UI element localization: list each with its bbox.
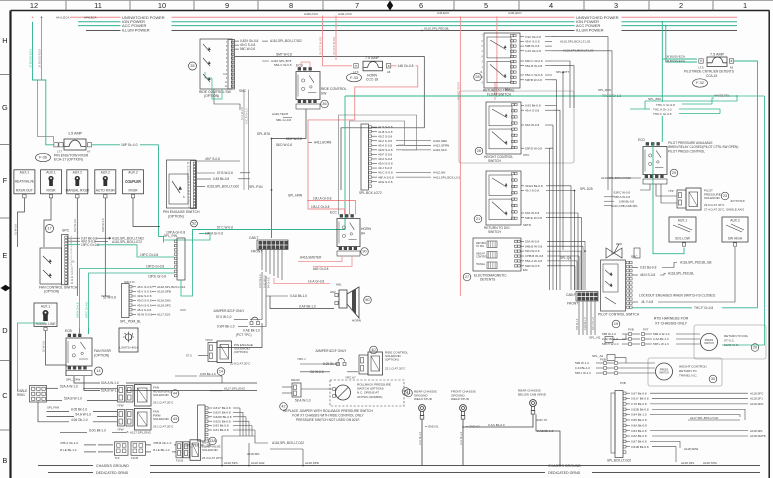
svg-text:19P.C Gr-0.8: 19P.C Gr-0.8	[85, 302, 89, 318]
svg-text:16P Gr-4.0: 16P Gr-4.0	[121, 143, 138, 147]
callout 14 fan rxsr	[95, 367, 103, 375]
svg-text:FLN2: FLN2	[131, 456, 139, 460]
svg-text:SFL: SFL	[505, 87, 511, 91]
svg-text:45.V S-0.8: 45.V S-0.8	[137, 290, 152, 294]
svg-text:49.N S-0.8: 49.N S-0.8	[137, 303, 152, 307]
component PILOT PRESSURE SOLENOID	[668, 188, 745, 211]
wire 52A.B W-1.0	[47, 397, 118, 401]
svg-text:0.88 Bk-0.8: 0.88 Bk-0.8	[619, 199, 634, 203]
svg-text:SOLENOID: SOLENOID	[202, 448, 219, 452]
wires to ground bus taps	[222, 436, 303, 465]
wire JIL Y-0.8	[633, 247, 736, 304]
svg-text:52A.B W-1.0: 52A.B W-1.0	[64, 397, 82, 401]
svg-text:SPL_PIN: SPL_PIN	[164, 234, 178, 238]
svg-text:A118,SPL: A118,SPL	[247, 452, 260, 456]
wire 48.N S-0.8	[633, 272, 695, 278]
svg-text:49.J S-0.8: 49.J S-0.8	[378, 166, 392, 170]
left edge diamond marker	[1, 285, 11, 291]
wire gray drop from ride SW	[214, 89, 240, 110]
svg-text:MANUAL RXSR: MANUAL RXSR	[66, 189, 90, 193]
grid column numbers	[30, 1, 747, 10]
svg-text:47B.A Ok-1.0: 47B.A Ok-1.0	[60, 441, 78, 445]
svg-text:53A W-0.8: 53A W-0.8	[525, 211, 539, 215]
svg-text:B: B	[2, 456, 7, 465]
svg-text:J6 BUSS-ECA: J6 BUSS-ECA	[38, 49, 42, 68]
svg-text:A117,SPL,ENG: A117,SPL,ENG	[130, 430, 152, 434]
svg-text:B: B	[388, 64, 390, 68]
relay ECB FAN RXSR (OPTION)	[65, 329, 111, 382]
svg-text:54D.C W-0.8: 54D.C W-0.8	[525, 59, 543, 63]
svg-text:J7 BUSS-ECA: J7 BUSS-ECA	[29, 49, 33, 68]
svg-text:41.S S-0.8: 41.S S-0.8	[378, 125, 393, 129]
wires from pin engage switch to right	[197, 157, 250, 189]
svg-text:53P.D W-0.8: 53P.D W-0.8	[525, 146, 542, 150]
svg-text:45.W S-0.8: 45.W S-0.8	[137, 313, 153, 317]
svg-text:(OPTION): (OPTION)	[168, 215, 184, 219]
svg-text:54B W-1.0: 54B W-1.0	[575, 361, 589, 365]
svg-text:YRC.A7: YRC.A7	[345, 376, 356, 380]
wires float switch to right verticals	[552, 37, 612, 255]
component FRONT CHASSIS GROUND WELD STUD	[451, 390, 480, 466]
svg-text:45.A S-0.8: 45.A S-0.8	[137, 308, 152, 312]
svg-text:49.A S-0.8: 49.A S-0.8	[525, 108, 540, 112]
svg-text:SPL_BCK: SPL_BCK	[598, 88, 611, 92]
svg-text:57.0 W-1.0: 57.0 W-1.0	[216, 315, 232, 319]
wire 54.A W-1.0	[47, 413, 118, 417]
svg-text:2: 2	[679, 1, 683, 10]
svg-text:DETENTS: DETENTS	[480, 278, 496, 282]
svg-text:55A.C W-0.8: 55A.C W-0.8	[525, 73, 543, 77]
svg-text:A110,SPL,BCK,LT,L02: A110,SPL,BCK,LT,L02	[560, 40, 591, 44]
svg-text:53P.H W-1.0: 53P.H W-1.0	[602, 342, 619, 346]
svg-text:TRAVEL N.C.: TRAVEL N.C.	[679, 374, 698, 378]
svg-text:10A: 10A	[71, 261, 76, 264]
svg-text:52A.B W-1.0: 52A.B W-1.0	[101, 389, 119, 393]
wire 19P.A right arrow	[199, 232, 223, 236]
wire THC.B Gr-1.0 main teal bus	[345, 93, 737, 99]
svg-text:0.81 Bk-0.8: 0.81 Bk-0.8	[213, 428, 229, 432]
wires below horn relay	[298, 256, 352, 272]
wire 19P.E Gr-0.8	[148, 273, 174, 279]
svg-text:19P.B Gr-0.8: 19P.B Gr-0.8	[76, 302, 80, 318]
svg-text:19P.E Gr-0.8: 19P.E Gr-0.8	[148, 275, 166, 279]
component ROLLBACK PRESSURE SWITCH dashed box	[301, 380, 404, 406]
wires SPL_A2 to PXT	[625, 334, 627, 363]
svg-text:TLF: TLF	[115, 456, 120, 460]
svg-text:19U.Z Gr-0.8: 19U.Z Gr-0.8	[311, 205, 330, 209]
connector DR2W	[282, 378, 311, 403]
svg-text:JIL Y-0.8: JIL Y-0.8	[641, 300, 653, 304]
component AUX.1 RXSR	[41, 170, 62, 198]
svg-text:CCA-15: CCA-15	[706, 74, 717, 78]
component RIDE CONTROL SW (OPTION)	[199, 39, 247, 98]
svg-text:0.AF Bk-1.0: 0.AF Bk-1.0	[460, 431, 463, 445]
wire 47B.A Ok-1.0	[60, 441, 113, 445]
svg-text:52: 52	[192, 222, 196, 226]
svg-text:ECB: ECB	[296, 64, 303, 68]
wires THC.C/A/F teal stubs	[630, 94, 730, 117]
svg-text:57.0: 57.0	[186, 354, 192, 358]
svg-text:LOCKOUT ENGAGED WHEN SWITCH IS: LOCKOUT ENGAGED WHEN SWITCH IS CLOSED.	[639, 294, 716, 298]
svg-text:ILLUM POWER: ILLUM POWER	[122, 28, 150, 33]
svg-text:PRESSURE SWITCH NOT USED ON 82: PRESSURE SWITCH NOT USED ON 821F.	[296, 418, 360, 422]
svg-text:PIN ENGAGE SWITCH: PIN ENGAGE SWITCH	[163, 210, 200, 214]
power rail labels left	[121, 14, 172, 34]
svg-text:7.5 AMP: 7.5 AMP	[365, 56, 380, 60]
svg-text:CAB.T: CAB.T	[249, 236, 259, 240]
svg-text:49.2 S-0.8: 49.2 S-0.8	[378, 139, 392, 143]
svg-text:BELOW CAB GRND: BELOW CAB GRND	[518, 392, 547, 396]
svg-text:6: 6	[419, 1, 423, 10]
connector CAB.T FRONT	[249, 236, 288, 254]
svg-text:PILOT CONTROL SWITCH: PILOT CONTROL SWITCH	[598, 313, 640, 317]
svg-text:HN2: HN2	[330, 290, 336, 294]
wire 58.E W-0.8 / A411,HORN	[276, 137, 332, 147]
wire 148 Ck-0.8 fuse output	[355, 64, 418, 120]
svg-text:0.83 Bk-0.8: 0.83 Bk-0.8	[213, 424, 229, 428]
svg-text:WELD STUD: WELD STUD	[451, 397, 470, 401]
svg-text:TRAVEL: TRAVEL	[476, 263, 486, 266]
acc power rail	[78, 25, 737, 27]
label SPL.P1N	[249, 185, 272, 191]
svg-text:26: 26	[477, 149, 481, 153]
svg-text:17: 17	[47, 227, 51, 231]
svg-text:A110,SPL,PED,BL: A110,SPL,PED,BL	[424, 27, 449, 31]
wire long gray run CAB.T to jumper	[250, 272, 266, 327]
connector CAB.F FRONT	[566, 292, 598, 306]
splice SPL_N2	[589, 336, 626, 343]
svg-text:A118,SPC: A118,SPC	[157, 303, 172, 307]
svg-text:ECA-17 (OPTION): ECA-17 (OPTION)	[54, 158, 83, 162]
wires from SPL_PDM_BL with labels	[132, 285, 185, 317]
svg-text:SOLENOID: SOLENOID	[704, 196, 721, 200]
wire loop around SPL.BCK.LG72 inner	[349, 121, 404, 215]
svg-text:A118,SPL: A118,SPL	[681, 461, 695, 465]
svg-text:HORN: HORN	[352, 319, 361, 323]
connector PXB + pressure switch RTD	[602, 328, 749, 351]
left ruler ticks	[0, 75, 11, 431]
wire 49.G S-0.8	[235, 43, 256, 47]
svg-text:5: 5	[484, 1, 488, 10]
svg-text:0.AF Bk-1.0: 0.AF Bk-1.0	[299, 304, 316, 308]
callout 23	[721, 192, 729, 200]
wire fuse F-32 output teal	[734, 61, 758, 308]
svg-text:B: B	[731, 59, 733, 63]
svg-text:H: H	[700, 59, 702, 63]
svg-text:0.44 Bk-1.0: 0.44 Bk-1.0	[575, 366, 590, 370]
svg-text:53P.E W-0.8: 53P.E W-0.8	[525, 216, 542, 220]
group box return to dig pressure switch	[694, 325, 766, 359]
wire J7 BUSS-ECA (green drop)	[29, 22, 54, 145]
svg-text:0.81B Bk-0.8: 0.81B Bk-0.8	[631, 445, 649, 449]
svg-text:JOYSTICK: JOYSTICK	[730, 199, 745, 203]
svg-text:PXB: PXB	[600, 358, 606, 362]
svg-text:F-32: F-32	[696, 81, 704, 85]
wire 1NC.B Gr-1.0 drop	[245, 90, 249, 191]
note replace jumper text	[283, 409, 373, 422]
svg-text:TO DIG: TO DIG	[476, 245, 484, 248]
svg-text:H: H	[355, 64, 357, 68]
svg-text:(PCT TPC): (PCT TPC)	[236, 333, 252, 337]
wire J7 ECC BUSS red drop	[493, 11, 523, 100]
svg-text:54B W-1.0: 54B W-1.0	[576, 318, 579, 330]
wire 52A.A W-1.0	[47, 384, 118, 388]
illum power rail	[86, 29, 737, 31]
svg-text:A446,CCC: A446,CCC	[304, 12, 319, 16]
callout 28	[474, 73, 482, 81]
svg-text:4: 4	[549, 1, 553, 10]
svg-text:0.84 Bk-1.0: 0.84 Bk-1.0	[631, 413, 647, 417]
svg-text:58C W-0.8: 58C W-0.8	[240, 47, 255, 51]
callout 52	[191, 220, 198, 227]
svg-text:4.06 Ok-1.0: 4.06 Ok-1.0	[71, 418, 88, 422]
callout 43 fan pwm	[171, 415, 179, 423]
label A110,SPL,PED,BL near rails	[421, 27, 449, 32]
wire red jumpers to relay top	[301, 16, 323, 68]
svg-text:43: 43	[404, 390, 408, 394]
callout 27	[463, 273, 471, 281]
callout 29	[670, 169, 678, 177]
svg-text:0.87 Bk-0.8: 0.87 Bk-0.8	[631, 391, 647, 395]
svg-text:XT CHASSIS ONLY: XT CHASSIS ONLY	[655, 322, 688, 326]
svg-text:27: 27	[465, 275, 469, 279]
svg-text:A110,SPL,BCK,LG72: A110,SPL,BCK,LG72	[112, 240, 142, 244]
svg-text:A118,SPL,BCK,LT,C02: A118,SPL,BCK,LT,C02	[272, 441, 304, 445]
svg-text:A412,SFRN: A412,SFRN	[433, 143, 449, 147]
svg-text:YPC2: YPC2	[205, 338, 213, 342]
svg-text:(OPTION): (OPTION)	[204, 94, 219, 98]
component AUX.2 AUTO RXSR	[95, 170, 116, 198]
wire 0.87 Bk-0.8	[68, 236, 144, 240]
wire red to horn relay	[288, 120, 356, 215]
component PIN ENGAGE SWITCH (OPTION)	[163, 160, 200, 219]
component RETURN TO DIG SWITCH	[484, 171, 531, 234]
svg-text:19U.A Gr-0.8: 19U.A Gr-0.8	[313, 197, 332, 201]
svg-text:0.AA Bk-1.0: 0.AA Bk-1.0	[584, 317, 587, 330]
svg-text:0.AD Bk-1.0: 0.AD Bk-1.0	[259, 274, 262, 288]
svg-text:AUX.2: AUX.2	[128, 171, 138, 175]
connector SPL.BCK.LT.G02	[607, 391, 631, 463]
component AUX.1 SIGNAL LINE	[34, 303, 57, 331]
svg-text:AUX.1: AUX.1	[46, 171, 56, 175]
svg-text:(OPTION): (OPTION)	[94, 354, 109, 358]
svg-text:A411,SPL,BCK,LG1: A411,SPL,BCK,LG1	[433, 175, 461, 179]
svg-text:49.C S-0.8: 49.C S-0.8	[378, 171, 393, 175]
svg-text:8: 8	[289, 1, 293, 10]
svg-text:64E Gr-0.8: 64E Gr-0.8	[313, 267, 329, 271]
svg-text:57.F W-0.8: 57.F W-0.8	[240, 107, 244, 120]
callout 35	[189, 62, 197, 70]
callout 36	[321, 100, 329, 108]
svg-text:54R W-0.8: 54R W-0.8	[525, 264, 540, 268]
svg-text:A117,SPL,BCK,LT,G0: A117,SPL,BCK,LT,G0	[690, 416, 719, 420]
svg-text:3: 3	[614, 1, 618, 10]
wires from detents	[521, 239, 586, 290]
svg-text:41.B S-0.8: 41.B S-0.8	[378, 130, 393, 134]
wire from auto rxsr	[101, 198, 105, 296]
svg-text:RXSR-OUT: RXSR-OUT	[16, 189, 33, 193]
wire from coupler rxsr	[133, 198, 160, 227]
callout 20	[751, 344, 759, 352]
svg-text:52V W-0.8: 52V W-0.8	[73, 219, 77, 232]
connector YFW2 + FAN PWM SOLENOID	[117, 409, 174, 432]
svg-text:12: 12	[30, 1, 38, 10]
svg-text:RTD HARNESS FOR: RTD HARNESS FOR	[654, 317, 689, 321]
svg-text:A118,G02: A118,G02	[251, 461, 265, 465]
svg-text:49.4 S-0.8: 49.4 S-0.8	[378, 143, 392, 147]
svg-text:SPC: SPC	[631, 255, 638, 259]
wire 52A.B W-1.0	[84, 376, 257, 393]
svg-text:44: 44	[173, 392, 177, 396]
wire R.LE Bk-1.0 b	[146, 448, 177, 452]
wire THC.B label left segment	[598, 88, 633, 96]
svg-text:AUX.2: AUX.2	[101, 171, 111, 175]
svg-text:52A.A W-1.0: 52A.A W-1.0	[101, 381, 119, 385]
wire 19P.B Gr-0.8 drop	[76, 269, 147, 335]
wire from signal line box down	[42, 331, 67, 376]
svg-text:58.E W-0.8: 58.E W-0.8	[286, 137, 302, 141]
svg-text:A117,SPL,ENG: A117,SPL,ENG	[224, 387, 246, 391]
wire THC.F Gr-0.8	[633, 305, 758, 311]
svg-text:AUX.2: AUX.2	[730, 219, 740, 223]
wire 8.05 Bk-1.0	[47, 408, 118, 412]
svg-text:SPL.B76: SPL.B76	[257, 132, 270, 136]
group box height control pressure switch	[648, 358, 722, 386]
svg-text:(OPTION): (OPTION)	[44, 290, 59, 294]
wire R.LE Bk-1.0	[60, 448, 113, 452]
power rail labels right	[575, 14, 622, 34]
svg-text:28: 28	[475, 75, 479, 79]
callout 40	[370, 346, 378, 354]
svg-text:30 PSIG (821BPA): 30 PSIG (821BPA)	[357, 395, 382, 399]
wire 57.C teal run	[193, 96, 346, 243]
callout 42	[280, 403, 288, 411]
svg-text:0.AA Bk-1.0: 0.AA Bk-1.0	[653, 337, 669, 341]
svg-text:PXB: PXB	[628, 328, 634, 332]
teal right vertical 2	[722, 96, 765, 345]
svg-text:A118,SPB: A118,SPB	[157, 290, 171, 294]
svg-text:A411,ECC: A411,ECC	[508, 11, 523, 15]
label A410,SPL,BY8	[262, 59, 292, 67]
svg-text:23: 23	[723, 194, 727, 198]
component AUX.1 HEAT/VALVE RXSR-OUT	[14, 170, 35, 198]
svg-text:SPL.HRN: SPL.HRN	[288, 194, 303, 198]
wire 19P.A Gr-0.8	[159, 231, 186, 243]
svg-text:DR2W: DR2W	[291, 378, 300, 382]
connector SPC pin strip	[62, 235, 76, 285]
wire teal inside ride SW to SPC	[212, 78, 222, 99]
svg-text:HEAT/VALVE: HEAT/VALVE	[15, 180, 35, 184]
svg-text:53P.C W-0.8: 53P.C W-0.8	[614, 191, 631, 195]
svg-text:REPLACE JUMPER WITH ROLLBACK P: REPLACE JUMPER WITH ROLLBACK PRESSURE SW…	[283, 409, 373, 413]
svg-text:A412,NN: A412,NN	[433, 171, 445, 175]
wires from SPL.BCK.LG72	[372, 125, 461, 184]
callout F-36	[36, 153, 51, 161]
wire 16P.C Gr-0.8 bottom-left run	[101, 295, 110, 297]
ign power rail	[78, 21, 737, 23]
svg-text:RETURN TO DIG: RETURN TO DIG	[724, 334, 749, 338]
svg-text:0.82W Bk-0.8: 0.82W Bk-0.8	[213, 415, 232, 419]
svg-text:49.E S-0.8: 49.E S-0.8	[137, 294, 152, 298]
wire J6 BUSS-ECA (gray drop)	[38, 17, 54, 142]
svg-text:A118,SFC: A118,SFC	[750, 391, 764, 395]
fuse F-33 7.5 AMP HORN CCC-18	[353, 56, 390, 82]
connector FLN3 + HEAT LOAD VALVE SOLENOID	[176, 440, 223, 463]
svg-text:SWITCH: SWITCH	[659, 372, 669, 375]
wires from SPL_PED_BL_GB	[208, 406, 304, 445]
svg-text:0.82 Bk-0.8: 0.82 Bk-0.8	[631, 434, 647, 438]
svg-text:A411,HORN: A411,HORN	[314, 141, 332, 145]
svg-text:46F.A S-0.8: 46F.A S-0.8	[378, 175, 394, 179]
svg-text:22.1 Ω AT 20°C: 22.1 Ω AT 20°C	[385, 367, 406, 371]
connector YFW + FAN REVERSING SOLENOID	[117, 385, 174, 408]
wire 19P.A to SPL_PIN	[163, 234, 210, 241]
note RTD HARNESS FOR XT CHASSIS ONLY	[654, 317, 689, 326]
wires from float switch	[520, 35, 594, 82]
svg-text:52 W-0.8: 52 W-0.8	[42, 341, 46, 352]
connector TLF FLN2	[115, 442, 146, 460]
svg-text:COUPLER: COUPLER	[125, 180, 141, 184]
svg-text:19: 19	[614, 322, 618, 326]
svg-text:A110,SPL,BCK,LT,S02: A110,SPL,BCK,LT,S02	[270, 39, 302, 43]
svg-text:AUX.1: AUX.1	[678, 219, 688, 223]
wire 0.AF Bk-1.0 to horn	[266, 294, 334, 309]
svg-text:49.J S-0.8: 49.J S-0.8	[525, 189, 539, 193]
svg-text:0.AF Bk-1.0: 0.AF Bk-1.0	[419, 431, 422, 445]
svg-text:DEDICATED GRND: DEDICATED GRND	[548, 471, 581, 475]
svg-text:A118,SFD: A118,SFD	[750, 402, 763, 406]
svg-text:SW HIGH: SW HIGH	[728, 237, 743, 241]
svg-text:SOLENOID: SOLENOID	[153, 393, 170, 397]
svg-text:0.82X Bk-0.8: 0.82X Bk-0.8	[213, 419, 231, 423]
svg-text:26.3 Ω AT 20°C: 26.3 Ω AT 20°C	[202, 456, 223, 460]
svg-text:SW: SW	[321, 92, 327, 96]
svg-text:R.LE Bk-1.0: R.LE Bk-1.0	[60, 448, 77, 452]
svg-text:54.A W-1.0: 54.A W-1.0	[76, 413, 92, 417]
svg-text:45.K S-0.8: 45.K S-0.8	[137, 285, 152, 289]
jumper 821F group 2	[297, 349, 358, 380]
svg-text:ECB: ECB	[65, 329, 72, 333]
svg-text:A410,SFC: A410,SFC	[433, 148, 448, 152]
callout F-32	[693, 79, 708, 87]
connector SPL.BCK.LG72	[359, 124, 382, 195]
wire teal from SPL_PIN down-right	[181, 243, 193, 296]
component AUX.2 SW HIGH	[722, 217, 748, 246]
svg-text:19P.C Gr-0.8: 19P.C Gr-0.8	[140, 253, 158, 257]
callout 80	[364, 296, 372, 304]
svg-text:10A: 10A	[223, 73, 228, 76]
svg-text:30: 30	[711, 377, 715, 381]
grid row letters	[2, 36, 8, 465]
top ruler ticks	[66, 1, 713, 11]
wire J5 ECC BUSS red drop (long)	[437, 11, 461, 296]
wire 52 W-0.8 relay output	[80, 328, 89, 334]
svg-text:PXB: PXB	[620, 381, 626, 385]
svg-text:7: 7	[355, 1, 359, 10]
svg-text:CONTROL: CONTROL	[476, 255, 488, 258]
chassis ground bus left	[38, 464, 760, 475]
teal wire solenoid to SOL LOW	[653, 142, 684, 254]
svg-text:SOL LOW: SOL LOW	[675, 237, 691, 241]
connector SPL_PIN	[164, 234, 186, 280]
wire from aux1 rxsr	[44, 198, 51, 247]
svg-text:0.29 Ok-0.8: 0.29 Ok-0.8	[525, 49, 541, 53]
svg-text:53P.L W-1.0: 53P.L W-1.0	[653, 342, 669, 346]
svg-text:20.8 Ω AT 20°C: 20.8 Ω AT 20°C	[230, 362, 251, 366]
svg-text:0.83 Bk-0.8: 0.83 Bk-0.8	[213, 177, 229, 181]
wire 19P.C Gr-0.8	[68, 243, 162, 257]
svg-text:53B W-0.8: 53B W-0.8	[525, 44, 540, 48]
